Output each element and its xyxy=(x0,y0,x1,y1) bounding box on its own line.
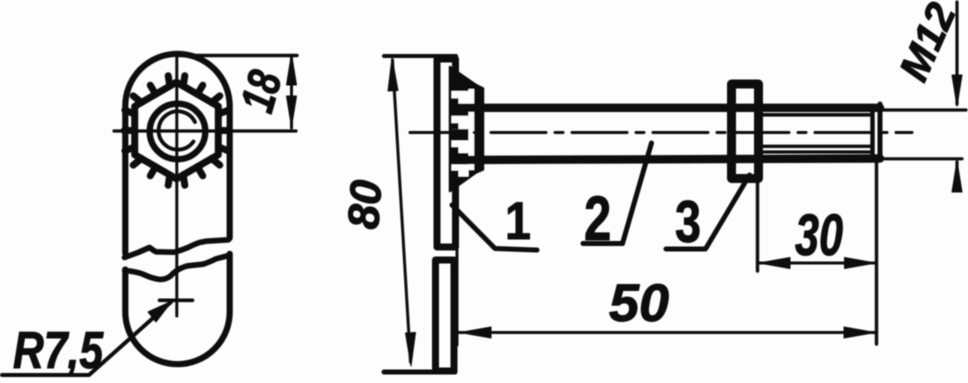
thread minor lines xyxy=(763,113,872,117)
dim 50 line xyxy=(459,331,876,334)
svg-text:2: 2 xyxy=(584,183,611,253)
serrated flange washer (side view) xyxy=(450,67,483,191)
break line lower (wavy) xyxy=(125,256,229,280)
dim 30 line xyxy=(758,262,877,265)
dim 80 line xyxy=(393,60,411,362)
horizontal centerline through nut xyxy=(114,129,296,132)
leader 2 underline xyxy=(583,143,652,244)
leader 3 underline xyxy=(666,175,750,249)
bolt end face xyxy=(878,104,883,160)
dim M12 extension bottom xyxy=(883,157,962,160)
serrated washer teeth xyxy=(124,76,229,186)
dim 30/50 extension right xyxy=(875,160,878,344)
bolt shank bottom edge xyxy=(454,159,880,161)
leader R7,5 xyxy=(2,302,171,375)
support plate lower part xyxy=(436,260,455,371)
svg-text:R7,5: R7,5 xyxy=(13,322,104,380)
leader 1 xyxy=(452,205,537,250)
dim 18 extension line top xyxy=(178,54,297,57)
left view: slotted plate outline (stadium shape) xyxy=(125,54,229,364)
dim M12 line upper with arrow down xyxy=(955,2,958,104)
break line upper (wavy) xyxy=(125,240,229,258)
nut (side view) xyxy=(732,84,759,179)
svg-text:50: 50 xyxy=(609,274,669,333)
bolt hole outer circle xyxy=(150,104,206,160)
dim M12 line lower with arrow up xyxy=(955,162,958,190)
dim 30 extension left (below nut) xyxy=(756,183,759,271)
svg-text:1: 1 xyxy=(505,191,531,250)
dim 80 extension bottom xyxy=(384,370,455,375)
svg-text:80: 80 xyxy=(339,178,391,231)
bolt centerline (dash-dot) xyxy=(410,131,912,134)
dim 80 extension top xyxy=(384,54,456,58)
right view: support plate upper part xyxy=(437,59,456,247)
svg-text:3: 3 xyxy=(675,189,701,255)
hex nut xyxy=(135,82,219,179)
thread minor arc (open at right) xyxy=(159,111,195,149)
dim 18 line with arrows xyxy=(290,56,293,128)
dim 50 extension left xyxy=(456,195,459,345)
vertical centerline of slot xyxy=(175,58,178,316)
thread end chamfer line xyxy=(870,107,874,158)
center mark cross at bottom arc center xyxy=(160,298,193,302)
dim M12 extension top xyxy=(880,108,966,111)
svg-text:30: 30 xyxy=(795,203,843,268)
bolt shank top edge xyxy=(454,104,880,112)
